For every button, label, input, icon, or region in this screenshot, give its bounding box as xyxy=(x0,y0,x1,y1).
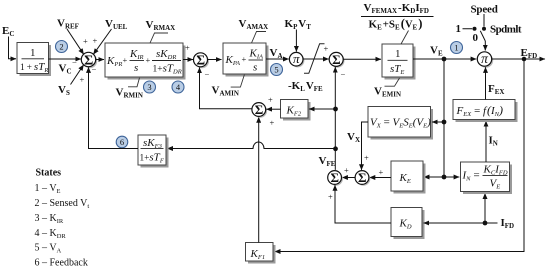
block integrator 1/sT_E xyxy=(382,44,416,80)
wire to I_N block xyxy=(444,176,459,178)
wire F_EX riser to mult2 xyxy=(485,67,487,99)
wire mult1 to sum3 xyxy=(303,58,329,60)
svg-text:−: − xyxy=(92,64,97,74)
svg-text:−: − xyxy=(205,69,210,79)
svg-text:+: + xyxy=(123,55,128,65)
block K_E xyxy=(391,161,426,194)
svg-text:+: + xyxy=(344,165,349,175)
svg-text:2 – Sensed Vt: 2 – Sensed Vt xyxy=(35,198,90,210)
wire K_F2 to sumF2 xyxy=(266,108,280,110)
state marker 4 xyxy=(172,81,184,93)
state marker 6 xyxy=(116,136,128,148)
switch arm xyxy=(480,31,485,41)
junction V_FE to feedback xyxy=(333,146,338,151)
wire V_REF arrow into sum1 xyxy=(67,29,84,54)
wire E_C to transducer block xyxy=(9,37,17,59)
junction E_FD xyxy=(522,57,527,62)
svg-text:Σ: Σ xyxy=(332,52,341,67)
junction at V_X tap xyxy=(442,120,447,125)
svg-text:+: + xyxy=(242,54,247,64)
wire to K_E xyxy=(424,176,444,178)
wire sum2 to PI block xyxy=(208,59,222,61)
svg-text:IN =: IN = xyxy=(462,170,481,183)
svg-text:3: 3 xyxy=(147,82,151,92)
svg-text:−: − xyxy=(72,57,77,67)
tick V_FEMAX to integrator xyxy=(401,31,409,45)
wire E_FD feedback down and left to K_F1 xyxy=(275,59,524,252)
svg-text:+: + xyxy=(146,55,151,65)
block F_EX = f(I_N) xyxy=(453,100,518,123)
svg-text:+: + xyxy=(185,43,190,53)
wire transducer to sum1, node V_C xyxy=(49,58,82,60)
wire V_FE to K_F2 xyxy=(309,108,336,110)
wire V_E tap to V_X block xyxy=(432,121,444,123)
block K_D xyxy=(391,208,425,240)
summer S4 xyxy=(328,170,343,186)
svg-text:+: + xyxy=(83,36,88,46)
state marker 2 xyxy=(56,41,68,53)
svg-text:Σ: Σ xyxy=(358,170,367,185)
wire PID to sum2 xyxy=(183,59,193,61)
svg-text:1: 1 xyxy=(395,48,401,60)
block transducer 1/(1+sTR) xyxy=(17,43,51,77)
svg-text:1: 1 xyxy=(456,23,462,35)
wire V_S arrow into sum1 xyxy=(71,65,84,85)
svg-text:+: + xyxy=(268,94,273,104)
svg-text:0: 0 xyxy=(473,32,479,44)
tick V_RMIN xyxy=(128,78,140,87)
block PID K_PR+K_IR/s+sK_DR/(1+sT_DR) xyxy=(105,43,186,80)
wire K_P V_T into mult1 xyxy=(295,30,297,52)
svg-text:+: + xyxy=(324,44,329,54)
junction V_FE to K_F2 xyxy=(333,107,338,112)
summer S1 xyxy=(81,52,97,68)
svg-text:+: + xyxy=(80,75,85,85)
block PI K_PA+K_IA/s xyxy=(223,43,269,77)
wire block6 out to sum1 bottom xyxy=(89,67,139,148)
svg-text:+: + xyxy=(93,36,98,46)
wire PI block to mult1, node V_A xyxy=(266,58,289,60)
wire V_FE riser sum4 up to sum3 xyxy=(334,67,336,170)
wire V_UEL arrow into sum1 xyxy=(93,29,111,54)
svg-text:5: 5 xyxy=(274,65,278,75)
svg-text:+: + xyxy=(328,192,333,202)
summer S5 xyxy=(355,170,370,186)
svg-text:1: 1 xyxy=(454,43,458,53)
junction V_E to K_E and I_N xyxy=(442,175,447,180)
switch contact speed xyxy=(482,27,486,31)
block washout sK_F3/(1+sT_F) xyxy=(138,135,169,168)
multiplier P1 xyxy=(289,51,304,67)
wire V_E drop xyxy=(443,59,445,177)
tick V_EMIN xyxy=(385,78,400,86)
block K_F2 xyxy=(281,100,311,121)
wire V_X out down to sum5 xyxy=(362,122,369,170)
block I_N = K_C I_FD / V_E xyxy=(461,162,513,194)
state marker 5 xyxy=(271,64,283,76)
wire mult2 to E_FD output xyxy=(492,58,546,60)
wire sum3 to integrator xyxy=(343,58,381,60)
wire integrator to mult2, node V_E xyxy=(413,58,476,60)
limiter slash xyxy=(304,44,325,74)
summer SF2 xyxy=(252,102,267,118)
wire switch to mult2 xyxy=(484,41,486,51)
svg-text:Spdmlt: Spdmlt xyxy=(490,24,522,36)
svg-text:s: s xyxy=(253,62,257,74)
svg-text:States: States xyxy=(36,168,62,179)
svg-text:s: s xyxy=(134,62,138,74)
wire K_F1 riser up to sumF2 xyxy=(258,117,260,242)
tick V_AMAX xyxy=(252,32,267,44)
wire Speed down to switch xyxy=(483,14,485,27)
junction I_FD xyxy=(483,221,488,226)
svg-text:Σ: Σ xyxy=(196,53,205,68)
svg-text:6: 6 xyxy=(120,137,124,147)
svg-text:+: + xyxy=(364,153,369,163)
svg-text:+: + xyxy=(379,167,384,177)
state marker 3 xyxy=(144,81,156,93)
limit label V_FEMAX fraction xyxy=(361,2,434,31)
block K_F1 xyxy=(246,243,276,264)
summer S3 xyxy=(329,52,344,68)
wire K_D out to sum4 bottom xyxy=(335,185,391,223)
states legend xyxy=(35,168,90,269)
svg-text:−: − xyxy=(341,69,346,79)
svg-text:Σ: Σ xyxy=(331,170,340,185)
summer S2 xyxy=(194,53,210,69)
svg-text:+: + xyxy=(270,117,275,127)
svg-text:2: 2 xyxy=(59,42,63,52)
multiplier P2 xyxy=(477,51,493,67)
wire I_FD riser to I_N block xyxy=(484,193,486,223)
svg-text:1 + sTR: 1 + sTR xyxy=(20,61,48,74)
wire sumF2 out to sum2 bottom xyxy=(200,68,253,109)
wire I_N riser to F_EX block xyxy=(485,121,487,162)
svg-text:1: 1 xyxy=(30,47,36,59)
wire long feedback with hop to block6 xyxy=(167,142,335,148)
wire sum1 to PID block xyxy=(96,59,104,61)
tick V_AMIN xyxy=(231,75,245,88)
wire sum5 to sum4 xyxy=(342,177,355,179)
junction V_E xyxy=(442,57,447,62)
wire K_E to sum5 xyxy=(370,177,391,179)
wire I_FD to K_D xyxy=(424,222,498,224)
block V_X = V_E S_E(V_E) xyxy=(368,107,433,140)
svg-text:Σ: Σ xyxy=(255,102,264,117)
tick V_RMAX xyxy=(150,33,168,43)
svg-text:6 – Feedback: 6 – Feedback xyxy=(35,258,88,269)
state marker 1 xyxy=(451,42,463,54)
svg-text:π: π xyxy=(293,51,300,66)
svg-text:Speed: Speed xyxy=(471,4,498,16)
